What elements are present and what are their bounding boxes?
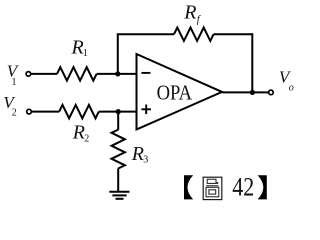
label R1 [71,37,88,59]
svg-text:R: R [183,2,196,24]
label R2 [72,122,90,145]
label V2 [3,93,16,119]
wire feedback riser [117,34,119,74]
terminal V2 [27,109,32,114]
label R3 [131,143,148,165]
svg-text:2: 2 [84,133,89,144]
terminal V1 [26,72,31,77]
wire R2 to non-inverting node [99,111,118,113]
wire Rf to output corner [214,33,253,35]
resistor Rf [174,28,214,41]
svg-text:42: 42 [232,172,254,202]
terminal Vo [269,90,274,95]
resistor R2 [59,105,99,118]
svg-text:1: 1 [83,48,88,59]
wire node B down to R3 [117,112,119,130]
svg-text:R: R [71,37,84,59]
ground [109,192,129,199]
svg-text:OPA: OPA [157,81,193,105]
wire V2 to R2 [32,111,60,113]
label Vo [279,67,294,93]
resistor R1 [57,67,97,80]
wire inverting node to op-amp minus input [118,73,137,75]
svg-text:R: R [72,122,85,144]
wire feedback top to Rf [117,33,174,35]
caption left bracket [184,175,193,199]
caption right bracket [258,175,267,199]
wire V1 to R1 [31,73,57,75]
wire R3 to ground [117,169,119,192]
wire op-amp output [222,91,269,93]
svg-text:o: o [289,83,294,94]
svg-text:R: R [131,143,144,165]
wire output drop [251,33,253,92]
op-amp plus sign [141,105,151,115]
node A (inverting input junction) [115,71,120,76]
svg-text:3: 3 [143,155,148,166]
wire non-inverting node to op-amp plus input [118,111,136,113]
op-amp U1 [137,54,223,130]
svg-text:2: 2 [12,108,17,119]
label Rf [183,2,202,26]
svg-text:1: 1 [12,77,17,88]
node B (non-inverting input junction) [116,109,121,114]
caption character Tu (figure) [203,177,222,199]
node C (output junction) [250,90,255,95]
op-amp minus sign [141,72,150,74]
label V1 [7,62,20,88]
svg-text:f: f [197,15,202,26]
wire R1 to inverting node [97,73,118,75]
resistor R3 [112,130,125,169]
